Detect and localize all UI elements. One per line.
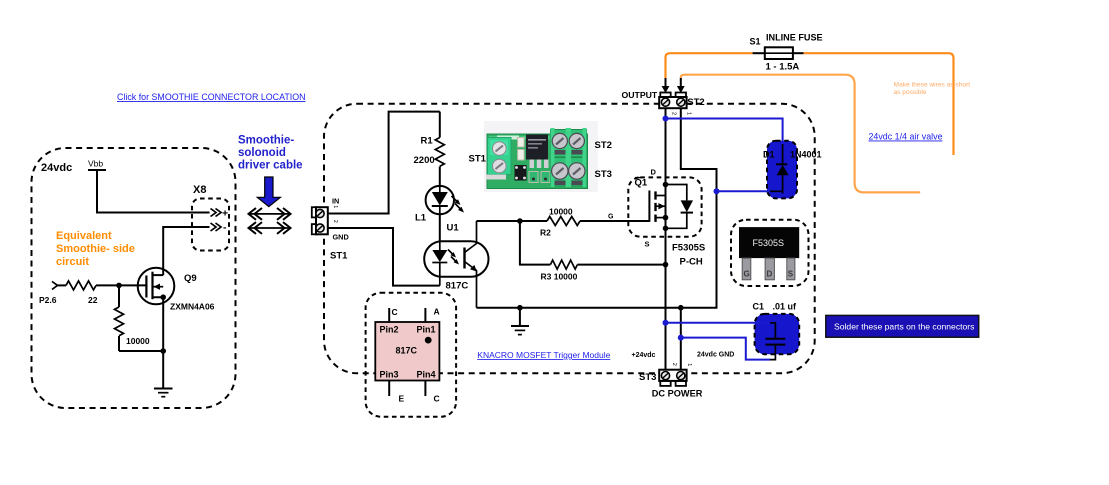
svg-text:24vdc 1/4 air valve: 24vdc 1/4 air valve bbox=[869, 132, 943, 142]
svg-text:ST2: ST2 bbox=[595, 140, 612, 151]
svg-text:R3 10000: R3 10000 bbox=[541, 272, 578, 282]
node R2/R3 junction bbox=[517, 218, 523, 224]
svg-text:Solder these parts on the conn: Solder these parts on the connectors bbox=[834, 322, 974, 332]
opto-coupler U1 817C body bbox=[424, 241, 488, 276]
svg-text:ST3: ST3 bbox=[639, 372, 656, 383]
wire ST3 pin1 bbox=[680, 308, 682, 370]
svg-text:R1: R1 bbox=[421, 136, 434, 147]
main +24v vertical wire bbox=[665, 108, 667, 370]
F5305S package dashed box bbox=[731, 220, 809, 286]
diode D1 blue blob bbox=[767, 141, 797, 199]
fuse S1 bbox=[753, 52, 765, 54]
svg-text:OUTPUT: OUTPUT bbox=[622, 90, 658, 100]
svg-text:22: 22 bbox=[88, 295, 98, 305]
X8 pin + chevron bbox=[211, 209, 217, 217]
svg-text:Pin2: Pin2 bbox=[380, 325, 399, 335]
wire ST1 IN to R1 rail bbox=[328, 112, 440, 214]
trigger module dashed enclosure bbox=[324, 104, 815, 374]
svg-text:G: G bbox=[744, 270, 750, 279]
svg-text:IN: IN bbox=[332, 197, 339, 206]
svg-text:C1: C1 bbox=[753, 302, 765, 312]
svg-text:as possible: as possible bbox=[894, 89, 927, 96]
orange wire return bbox=[681, 75, 920, 193]
svg-text:1: 1 bbox=[332, 205, 338, 208]
svg-text:R2: R2 bbox=[540, 228, 551, 238]
wire Vbb to X8 + bbox=[97, 170, 210, 213]
svg-text:ST3: ST3 bbox=[595, 169, 612, 180]
F5305S pins G D S bbox=[742, 258, 751, 280]
svg-text:2: 2 bbox=[332, 220, 338, 223]
svg-text:Make these wires as short: Make these wires as short bbox=[894, 82, 971, 89]
817C DIP pins top bbox=[388, 308, 390, 322]
svg-text:10000: 10000 bbox=[549, 207, 573, 217]
node body-diode return junction bbox=[663, 226, 669, 232]
817C DIP pins bottom bbox=[388, 381, 390, 397]
svg-text:P2.6: P2.6 bbox=[39, 295, 57, 305]
resistor R3 10000 bbox=[520, 221, 551, 265]
node Q1 drain junction bbox=[663, 182, 669, 188]
node ground junction bbox=[517, 305, 523, 311]
svg-text:U1: U1 bbox=[447, 223, 460, 234]
svg-text:S: S bbox=[645, 240, 650, 249]
wire pulldown to source bbox=[119, 350, 163, 352]
svg-text:C: C bbox=[392, 307, 398, 317]
wire L1 to opto bbox=[439, 214, 441, 241]
svg-text:C: C bbox=[434, 394, 440, 404]
svg-text:24vdc: 24vdc bbox=[41, 162, 72, 174]
cable wire symbol row 1 bbox=[249, 213, 290, 215]
input pin P2.6 bbox=[52, 281, 58, 289]
svg-text:10000: 10000 bbox=[126, 336, 150, 346]
node R3 junction bbox=[663, 262, 669, 268]
note box: solder these parts on the connectors bbox=[826, 315, 979, 337]
svg-text:circuit: circuit bbox=[56, 256, 89, 268]
svg-text:+24vdc: +24vdc bbox=[632, 352, 656, 359]
svg-text:S: S bbox=[788, 270, 794, 279]
svg-text:F5305S: F5305S bbox=[672, 243, 705, 254]
blue down arrow bbox=[257, 177, 280, 207]
svg-text:2200: 2200 bbox=[414, 155, 435, 166]
svg-text:ST1: ST1 bbox=[330, 251, 348, 262]
Q1 body diode bbox=[666, 185, 687, 201]
svg-text:D: D bbox=[767, 270, 773, 279]
wire collector to R2 bbox=[477, 220, 548, 222]
capacitor C1 symbol bbox=[770, 323, 775, 339]
svg-text:driver cable: driver cable bbox=[238, 159, 303, 171]
node source junction bbox=[160, 348, 166, 354]
svg-text:2: 2 bbox=[671, 363, 677, 366]
svg-text:P-CH: P-CH bbox=[680, 257, 703, 268]
svg-text:1: 1 bbox=[686, 112, 692, 115]
wire ST1 GND to opto cathode bbox=[328, 228, 440, 286]
svg-text:1N4001: 1N4001 bbox=[790, 150, 822, 160]
svg-text:2: 2 bbox=[670, 112, 676, 115]
svg-text:L1: L1 bbox=[415, 213, 427, 224]
svg-text:D: D bbox=[651, 168, 657, 177]
svg-text:INLINE FUSE: INLINE FUSE bbox=[766, 33, 823, 43]
svg-text:Smoothie-: Smoothie- bbox=[238, 135, 294, 147]
node gnd rail / ST3 pin1 bbox=[678, 305, 684, 311]
wire gate bbox=[96, 284, 146, 286]
svg-text:Smoothie- side: Smoothie- side bbox=[56, 243, 135, 255]
svg-text:GND: GND bbox=[333, 233, 349, 242]
node Q1 source stub junction bbox=[663, 215, 669, 221]
emitter ground rail bbox=[477, 108, 717, 308]
817C DIP package dashed box bbox=[366, 293, 457, 417]
F5305S package body bbox=[739, 227, 799, 258]
svg-text:+: + bbox=[222, 208, 228, 220]
svg-text:Pin4: Pin4 bbox=[417, 370, 436, 380]
svg-text:ST1: ST1 bbox=[469, 154, 487, 165]
svg-text:817C: 817C bbox=[396, 346, 418, 356]
photo: KNACRO module pcb bbox=[484, 121, 598, 192]
blue wire C1 to gnd bbox=[681, 338, 770, 360]
wire X8 - to Q9 drain bbox=[163, 227, 209, 275]
cable wire symbol row 2 bbox=[249, 227, 290, 229]
arrows into ST2 bbox=[665, 78, 667, 88]
svg-text:Q9: Q9 bbox=[184, 273, 197, 284]
resistor 10000 (gate pulldown) bbox=[118, 285, 120, 307]
svg-text:ST2: ST2 bbox=[687, 97, 704, 108]
X8 pin - chevron bbox=[211, 223, 217, 231]
svg-text:KNACRO MOSFET Trigger Module: KNACRO MOSFET Trigger Module bbox=[477, 350, 610, 360]
transistor Q9 ZXMN4A06 bbox=[138, 268, 175, 305]
capacitor C1 blue blob bbox=[755, 314, 800, 354]
blue wire +24 to C1 bbox=[666, 322, 771, 324]
svg-text:F5305S: F5305S bbox=[753, 238, 785, 248]
svg-text:G: G bbox=[608, 214, 614, 221]
svg-text:Pin1: Pin1 bbox=[417, 325, 436, 335]
svg-text:.01 uf: .01 uf bbox=[773, 302, 798, 312]
svg-text:Q1: Q1 bbox=[635, 178, 648, 189]
terminal ST2 bbox=[660, 93, 670, 98]
blue wire ST2 pin2 to D1 top bbox=[666, 119, 783, 147]
svg-text:24vdc GND: 24vdc GND bbox=[697, 352, 734, 359]
svg-text:Click for SMOOTHIE CONNECTOR L: Click for SMOOTHIE CONNECTOR LOCATION bbox=[117, 92, 306, 102]
svg-text:A: A bbox=[434, 307, 440, 317]
resistor R1 2200 bbox=[439, 112, 441, 138]
svg-text:DC POWER: DC POWER bbox=[652, 389, 703, 399]
svg-text:ZXMN4A06: ZXMN4A06 bbox=[170, 302, 215, 312]
blue wire D1 bottom to gnd rail bbox=[717, 190, 771, 192]
svg-text:-: - bbox=[223, 222, 227, 234]
node gate junction bbox=[116, 283, 122, 289]
equivalent smoothie-side circuit dashed enclosure bbox=[32, 148, 236, 408]
svg-text:1: 1 bbox=[686, 363, 692, 366]
svg-text:1 - 1.5A: 1 - 1.5A bbox=[766, 62, 800, 73]
817C DIP body bbox=[375, 322, 439, 381]
svg-text:solonoid: solonoid bbox=[238, 147, 286, 159]
svg-text:X8: X8 bbox=[193, 184, 206, 196]
connector X8 dashed box bbox=[192, 199, 229, 251]
diode D1 symbol bbox=[782, 144, 784, 164]
svg-text:817C: 817C bbox=[446, 281, 469, 292]
orange wire fuse feed bbox=[666, 53, 753, 78]
LED L1 bbox=[426, 186, 454, 214]
terminal ST1 bbox=[312, 207, 317, 217]
resistor R2 10000 bbox=[547, 217, 580, 226]
svg-text:Equivalent: Equivalent bbox=[56, 230, 112, 242]
svg-text:E: E bbox=[399, 394, 405, 404]
svg-text:S1: S1 bbox=[750, 36, 761, 46]
ground (left circuit) bbox=[154, 388, 173, 390]
ground (module) bbox=[519, 308, 521, 326]
terminal ST3 bbox=[660, 381, 670, 386]
resistor 22 bbox=[66, 281, 96, 290]
svg-text:Vbb: Vbb bbox=[88, 159, 103, 169]
transistor Q1 mosfet symbol bbox=[648, 191, 650, 222]
svg-text:Pin3: Pin3 bbox=[380, 370, 399, 380]
transistor Q1 dashed box bbox=[628, 177, 701, 236]
svg-text:D1: D1 bbox=[763, 150, 775, 160]
